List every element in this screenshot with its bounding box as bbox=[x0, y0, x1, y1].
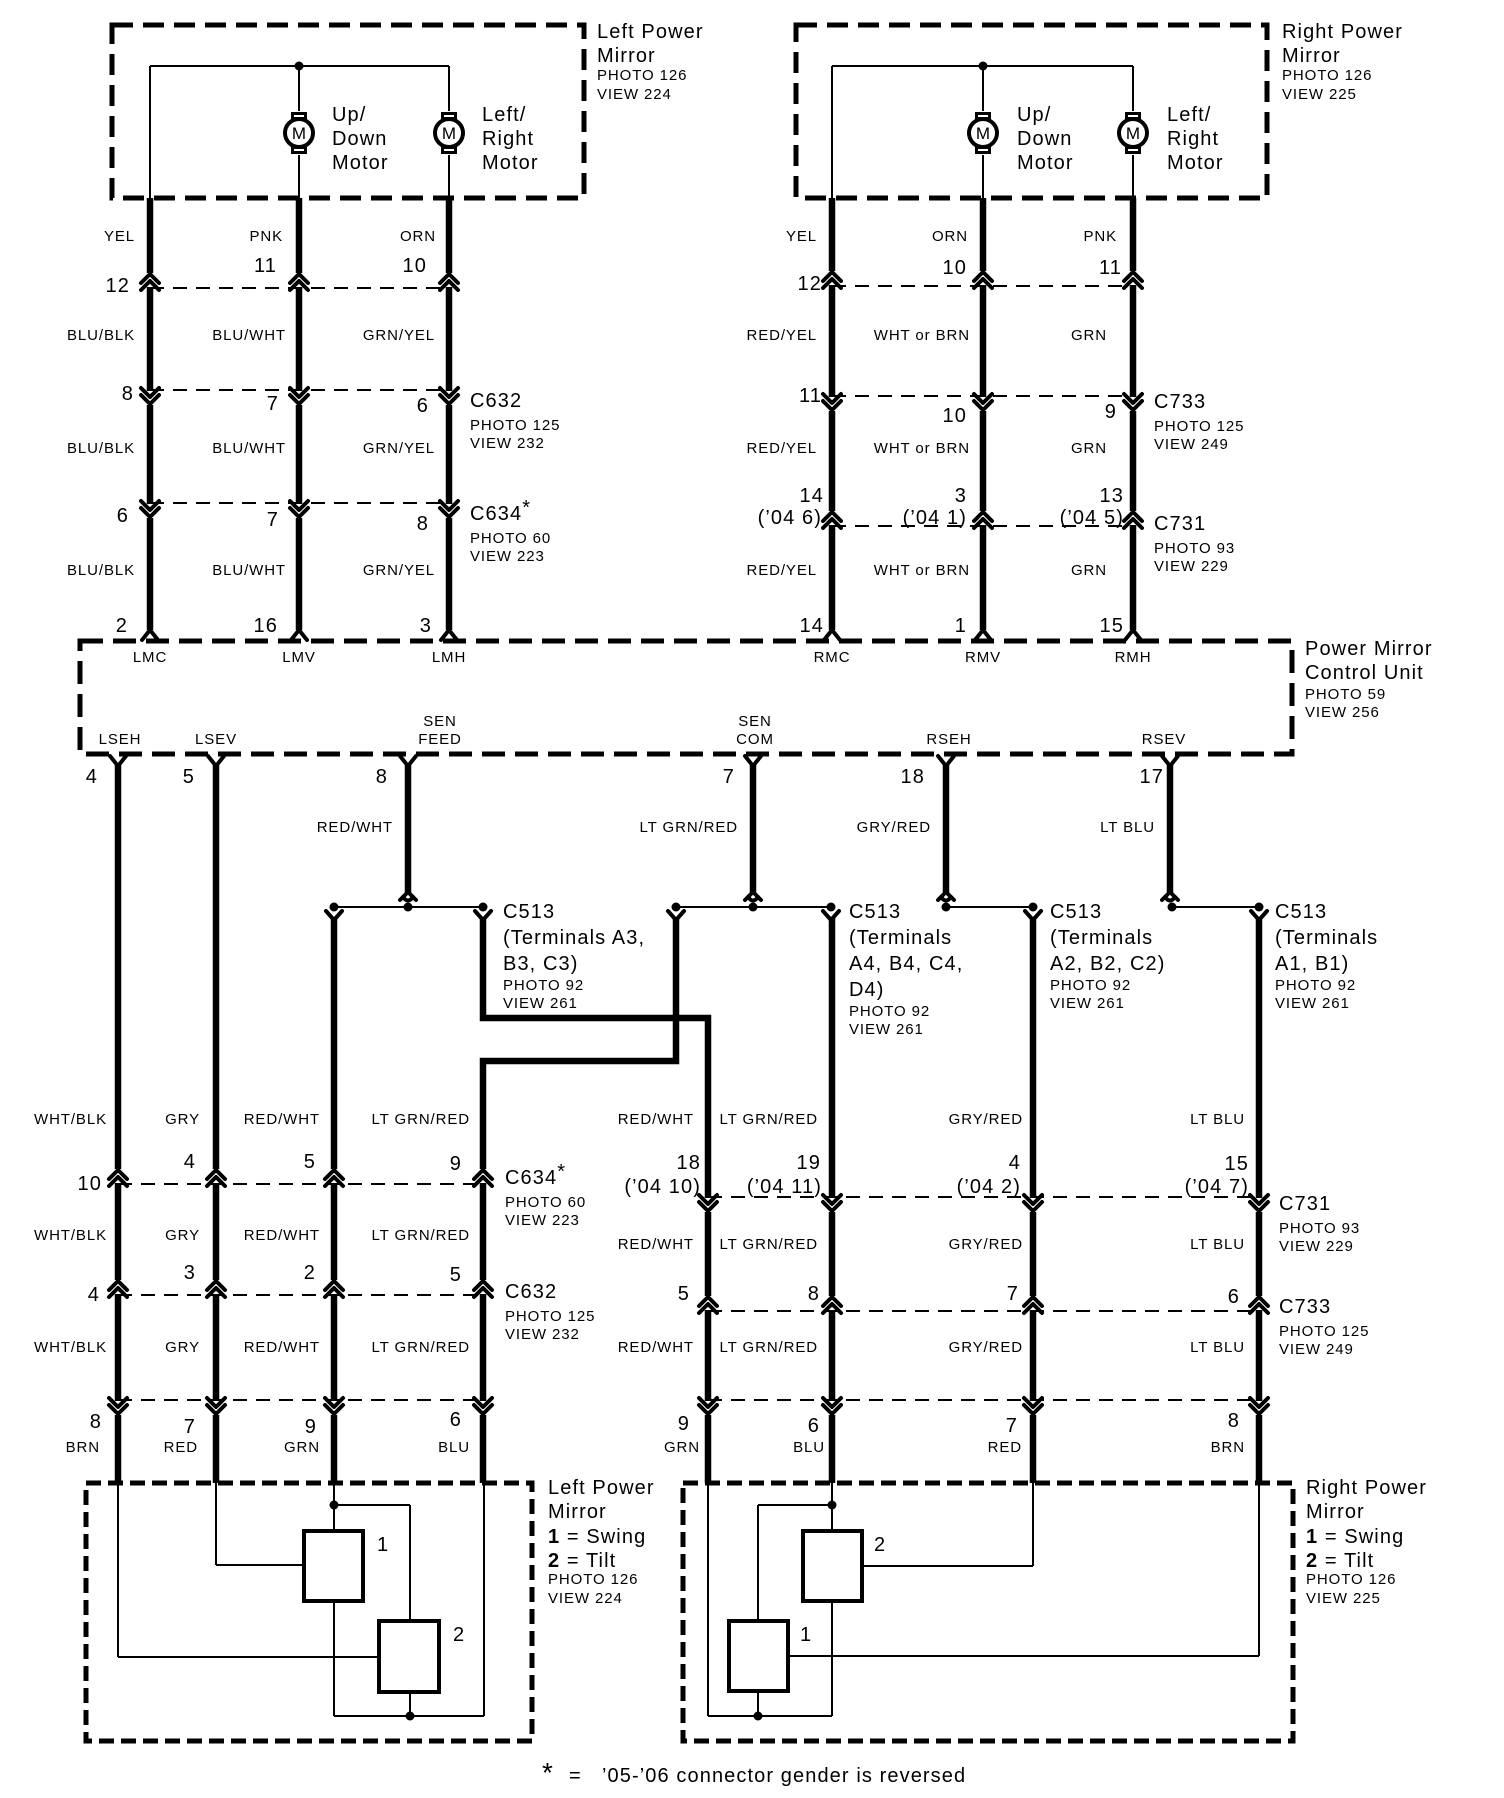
svg-text:=: = bbox=[569, 1765, 582, 1787]
connector C731 line (right) bbox=[832, 525, 1133, 527]
svg-text:(’04 7): (’04 7) bbox=[1185, 1176, 1249, 1198]
wire feed to swing pot bbox=[333, 1483, 335, 1531]
svg-text:Motor: Motor bbox=[1017, 152, 1074, 174]
svg-text:PHOTO 60: PHOTO 60 bbox=[470, 530, 551, 547]
svg-text:4: 4 bbox=[1009, 1152, 1021, 1174]
svg-text:9: 9 bbox=[450, 1153, 462, 1175]
svg-text:VIEW 223: VIEW 223 bbox=[470, 548, 545, 565]
svg-text:RSEV: RSEV bbox=[1142, 731, 1186, 748]
svg-text:GRY: GRY bbox=[165, 1227, 200, 1244]
svg-text:4: 4 bbox=[86, 766, 98, 788]
Left Power Mirror box (bottom) bbox=[86, 1483, 532, 1741]
wire PNK/BLU-WHT segment bbox=[296, 287, 303, 391]
svg-text:RED/WHT: RED/WHT bbox=[244, 1227, 320, 1244]
wire common bus bbox=[334, 1715, 484, 1717]
connector pin chevron bbox=[1250, 1398, 1268, 1414]
wire bus inside left mirror box bbox=[150, 65, 449, 67]
wire ORN/GRN-YEL segment mirror to C-row bbox=[446, 198, 453, 273]
node B3 bbox=[404, 903, 413, 912]
svg-text:C733: C733 bbox=[1154, 391, 1206, 413]
svg-text:(Terminals: (Terminals bbox=[1275, 927, 1378, 949]
svg-text:10: 10 bbox=[943, 405, 967, 427]
svg-text:VIEW 224: VIEW 224 bbox=[548, 1590, 623, 1607]
junction node feed bbox=[330, 1501, 339, 1510]
connector line at left mirror bbox=[118, 1399, 483, 1401]
svg-text:11: 11 bbox=[799, 385, 822, 407]
C513 terminal to right mirror RSEV bbox=[1251, 911, 1267, 920]
wire RED/WHT SEN FEED bbox=[405, 764, 412, 894]
wire left drop inside box bbox=[149, 66, 151, 198]
svg-text:GRY: GRY bbox=[165, 1339, 200, 1356]
connector pin chevron bbox=[974, 272, 992, 288]
wire segment bbox=[1256, 1212, 1263, 1296]
svg-text:M: M bbox=[976, 124, 990, 143]
svg-text:1 = Swing: 1 = Swing bbox=[548, 1526, 646, 1548]
connector pin chevron bbox=[699, 1398, 717, 1414]
svg-text:Mirror: Mirror bbox=[1306, 1501, 1365, 1523]
svg-text:M: M bbox=[1126, 124, 1140, 143]
svg-text:8: 8 bbox=[122, 383, 134, 405]
wire feed return bbox=[707, 1483, 709, 1716]
svg-text:7: 7 bbox=[184, 1416, 196, 1438]
svg-text:Right: Right bbox=[482, 128, 534, 150]
connector C632 pin chevron bbox=[290, 388, 308, 404]
wire PNK/BLU-WHT segment bbox=[296, 405, 303, 504]
svg-text:7: 7 bbox=[267, 509, 279, 531]
svg-text:LT GRN/RED: LT GRN/RED bbox=[720, 1111, 818, 1128]
wire YEL/BLU-BLK segment mirror to C-row bbox=[147, 198, 154, 273]
svg-text:GRY/RED: GRY/RED bbox=[949, 1339, 1023, 1356]
svg-text:VIEW 232: VIEW 232 bbox=[470, 435, 545, 452]
svg-text:PHOTO 125: PHOTO 125 bbox=[1154, 418, 1244, 435]
wire YEL/RED-YEL segment mirror to C-row bbox=[829, 198, 836, 271]
connector C733 line (lower) bbox=[708, 1310, 1259, 1312]
svg-text:12: 12 bbox=[798, 273, 822, 295]
svg-text:WHT/BLK: WHT/BLK bbox=[34, 1111, 107, 1128]
C513 terminal to left mirror feed bbox=[326, 911, 342, 920]
wire RED/WHT crossover to right mirror bbox=[483, 918, 708, 1198]
wire segment to left mirror bbox=[331, 1415, 338, 1483]
svg-text:6: 6 bbox=[808, 1415, 820, 1437]
terminal fork below control unit bbox=[745, 756, 761, 766]
svg-text:BLU/WHT: BLU/WHT bbox=[212, 562, 286, 579]
svg-text:2: 2 bbox=[304, 1262, 316, 1284]
wire YEL/RED-YEL segment to control unit bbox=[829, 525, 836, 630]
svg-text:VIEW 261: VIEW 261 bbox=[1050, 995, 1125, 1012]
terminal fork below control unit bbox=[938, 756, 954, 766]
svg-text:15: 15 bbox=[1100, 615, 1124, 637]
svg-text:VIEW 225: VIEW 225 bbox=[1306, 1590, 1381, 1607]
svg-text:Up/: Up/ bbox=[1017, 104, 1051, 126]
svg-text:19: 19 bbox=[797, 1152, 821, 1174]
svg-text:(Terminals: (Terminals bbox=[1050, 927, 1153, 949]
wire ORN/GRN-YEL segment bbox=[446, 287, 453, 391]
wire segment bbox=[480, 1294, 487, 1401]
C513 bus (terminals A4,B4,C4,D4) bbox=[676, 906, 831, 908]
svg-text:RED/YEL: RED/YEL bbox=[747, 327, 818, 344]
svg-text:A4, B4, C4,: A4, B4, C4, bbox=[849, 953, 963, 975]
svg-text:SEN: SEN bbox=[423, 713, 457, 730]
wire common branch bbox=[758, 1504, 832, 1506]
C513 terminal (SEN COM side) bbox=[745, 892, 761, 901]
wire WHT/BLK LSEH bbox=[115, 764, 122, 1169]
terminal fork below control unit bbox=[400, 756, 416, 766]
connector C632 pin chevron bbox=[207, 1281, 225, 1297]
wire ORN/GRN-YEL segment bbox=[446, 405, 453, 504]
Power Mirror Control Unit box bbox=[80, 641, 1292, 754]
connector pin chevron bbox=[325, 1398, 343, 1414]
svg-text:C731: C731 bbox=[1154, 513, 1206, 535]
terminal fork below control unit bbox=[110, 756, 126, 766]
wire below left/right motor bbox=[448, 155, 450, 198]
connector C731 pin chevron bbox=[699, 1195, 717, 1211]
connector pin chevron bbox=[109, 1398, 127, 1414]
connector C634 pin chevron bbox=[141, 501, 159, 517]
wire segment bbox=[213, 1183, 220, 1280]
svg-text:VIEW 261: VIEW 261 bbox=[849, 1021, 924, 1038]
svg-text:1: 1 bbox=[955, 615, 967, 637]
svg-text:VIEW 225: VIEW 225 bbox=[1282, 86, 1357, 103]
Right Power Mirror box (bottom) bbox=[683, 1483, 1293, 1741]
svg-text:A2, B2, C2): A2, B2, C2) bbox=[1050, 953, 1165, 975]
svg-text:*: * bbox=[542, 1757, 553, 1788]
svg-text:3: 3 bbox=[955, 485, 967, 507]
svg-text:8: 8 bbox=[808, 1283, 820, 1305]
connector C731 pin chevron bbox=[974, 512, 992, 528]
svg-text:PHOTO 126: PHOTO 126 bbox=[1306, 1571, 1396, 1588]
svg-text:BLU/BLK: BLU/BLK bbox=[67, 440, 135, 457]
wire LT BLU to right mirror bbox=[1256, 918, 1263, 1198]
svg-text:10: 10 bbox=[943, 257, 967, 279]
svg-text:WHT or BRN: WHT or BRN bbox=[874, 440, 970, 457]
svg-text:Left Power: Left Power bbox=[597, 21, 704, 43]
C513 terminal to left mirror common bbox=[668, 911, 684, 920]
svg-text:BLU/WHT: BLU/WHT bbox=[212, 440, 286, 457]
svg-text:(’04 11): (’04 11) bbox=[747, 1176, 822, 1198]
svg-text:3: 3 bbox=[420, 615, 432, 637]
svg-text:PHOTO 125: PHOTO 125 bbox=[1279, 1323, 1369, 1340]
svg-text:LMV: LMV bbox=[282, 649, 316, 666]
C513 terminal to right mirror common bbox=[823, 911, 839, 920]
svg-text:5: 5 bbox=[304, 1151, 316, 1173]
svg-text:LT BLU: LT BLU bbox=[1100, 819, 1155, 836]
svg-text:YEL: YEL bbox=[104, 228, 135, 245]
svg-text:PHOTO 59: PHOTO 59 bbox=[1305, 686, 1386, 703]
wire segment bbox=[705, 1310, 712, 1401]
svg-text:LT GRN/RED: LT GRN/RED bbox=[372, 1227, 470, 1244]
svg-text:LSEV: LSEV bbox=[195, 731, 237, 748]
terminal fork at control unit bbox=[142, 630, 158, 640]
connector pin chevron bbox=[474, 1398, 492, 1414]
svg-text:18: 18 bbox=[901, 766, 925, 788]
svg-text:C513: C513 bbox=[1275, 901, 1327, 923]
connector C731 line (lower) bbox=[708, 1196, 1259, 1198]
svg-text:PHOTO 92: PHOTO 92 bbox=[1050, 977, 1131, 994]
svg-text:Left Power: Left Power bbox=[548, 1477, 655, 1499]
wire PNK/GRN segment bbox=[1130, 411, 1137, 511]
svg-text:(’04 10): (’04 10) bbox=[624, 1176, 701, 1198]
wire GRY/RED to right mirror bbox=[1030, 918, 1037, 1198]
svg-text:C513: C513 bbox=[503, 901, 555, 923]
svg-text:PHOTO 60: PHOTO 60 bbox=[505, 1194, 586, 1211]
wire swing wiper to RSEV bbox=[788, 1655, 1259, 1657]
C513 terminal (SEN FEED side) bbox=[400, 892, 416, 901]
connector pin chevron bbox=[1124, 272, 1142, 288]
svg-text:GRY/RED: GRY/RED bbox=[857, 819, 931, 836]
potentiometer 2 tilt (right mirror) bbox=[803, 1531, 862, 1601]
wire pot1 bottom to feed bus bbox=[757, 1691, 759, 1716]
svg-text:RED/YEL: RED/YEL bbox=[747, 440, 818, 457]
svg-text:(’04 5): (’04 5) bbox=[1060, 507, 1124, 529]
wire to left/right motor bbox=[1132, 66, 1134, 111]
svg-text:VIEW 261: VIEW 261 bbox=[503, 995, 578, 1012]
wire pot1 bottom to common bbox=[333, 1601, 335, 1716]
svg-text:M: M bbox=[292, 124, 306, 143]
junction node common bbox=[406, 1712, 415, 1721]
wire segment bbox=[480, 1183, 487, 1280]
svg-text:WHT/BLK: WHT/BLK bbox=[34, 1339, 107, 1356]
svg-text:’05-’06 connector gender is re: ’05-’06 connector gender is reversed bbox=[602, 1765, 966, 1787]
wire common to swing pot bbox=[757, 1505, 759, 1621]
svg-text:A1, B1): A1, B1) bbox=[1275, 953, 1349, 975]
connector C634 pin chevron bbox=[207, 1170, 225, 1186]
svg-text:16: 16 bbox=[254, 615, 278, 637]
svg-text:VIEW 229: VIEW 229 bbox=[1154, 558, 1229, 575]
wire segment to right mirror bbox=[705, 1415, 712, 1483]
svg-text:C513: C513 bbox=[849, 901, 901, 923]
terminal fork at control unit bbox=[824, 630, 840, 640]
wire YEL/BLU-BLK segment to control unit bbox=[147, 518, 154, 630]
svg-text:PHOTO 126: PHOTO 126 bbox=[1282, 67, 1372, 84]
svg-text:M: M bbox=[442, 124, 456, 143]
connector C634 line (lower) bbox=[118, 1183, 483, 1185]
svg-text:Motor: Motor bbox=[1167, 152, 1224, 174]
motor M up/down (left mirror) bbox=[285, 112, 313, 154]
wire to up/down motor bbox=[298, 66, 300, 111]
terminal fork at control unit bbox=[1125, 630, 1141, 640]
svg-text:GRY/RED: GRY/RED bbox=[949, 1111, 1023, 1128]
svg-text:(’04 6): (’04 6) bbox=[758, 507, 822, 529]
wire segment bbox=[331, 1183, 338, 1280]
wire ORN/WHTorBRN segment bbox=[980, 285, 987, 397]
wire PNK/GRN segment bbox=[1130, 285, 1137, 397]
terminal fork below control unit bbox=[208, 756, 224, 766]
connector C733 pin chevron bbox=[974, 394, 992, 410]
node B2 bbox=[1029, 903, 1038, 912]
svg-text:GRN: GRN bbox=[284, 1439, 320, 1456]
svg-text:WHT or BRN: WHT or BRN bbox=[874, 562, 970, 579]
svg-text:PHOTO 92: PHOTO 92 bbox=[1275, 977, 1356, 994]
wire segment bbox=[1030, 1212, 1037, 1296]
svg-text:LSEH: LSEH bbox=[99, 731, 142, 748]
svg-text:7: 7 bbox=[723, 766, 735, 788]
svg-text:B3, C3): B3, C3) bbox=[503, 953, 579, 975]
svg-text:RED: RED bbox=[164, 1439, 198, 1456]
svg-text:PHOTO 93: PHOTO 93 bbox=[1154, 540, 1235, 557]
svg-text:C632: C632 bbox=[470, 390, 522, 412]
wire feed branch bbox=[334, 1504, 410, 1506]
connector pin chevron bbox=[290, 274, 308, 290]
wire segment bbox=[829, 1310, 836, 1401]
svg-text:4: 4 bbox=[184, 1151, 196, 1173]
C513 bus (terminals A2,B2,C2) bbox=[946, 906, 1033, 908]
wire to up/down motor bbox=[982, 66, 984, 111]
potentiometer 1 swing (right mirror) bbox=[729, 1621, 788, 1691]
node C4 bbox=[827, 903, 836, 912]
svg-text:14: 14 bbox=[800, 615, 824, 637]
connector line at right mirror bbox=[708, 1399, 1259, 1401]
svg-text:BLU: BLU bbox=[438, 1439, 470, 1456]
svg-text:YEL: YEL bbox=[786, 228, 817, 245]
node A1 bbox=[1168, 903, 1177, 912]
svg-text:RED: RED bbox=[988, 1439, 1022, 1456]
connector C632 pin chevron bbox=[109, 1281, 127, 1297]
wire LT GRN/RED crossover to left mirror bbox=[483, 918, 676, 1169]
svg-text:2: 2 bbox=[874, 1534, 886, 1556]
wire below up/down motor bbox=[982, 155, 984, 198]
svg-text:PHOTO 125: PHOTO 125 bbox=[505, 1308, 595, 1325]
connector C733 pin chevron bbox=[1124, 394, 1142, 410]
wire YEL/BLU-BLK segment bbox=[147, 405, 154, 504]
connector C733 pin chevron bbox=[823, 1297, 841, 1313]
svg-text:Control Unit: Control Unit bbox=[1305, 662, 1424, 684]
svg-text:GRN: GRN bbox=[1071, 440, 1107, 457]
svg-text:5: 5 bbox=[450, 1264, 462, 1286]
svg-text:VIEW 249: VIEW 249 bbox=[1154, 436, 1229, 453]
wire PNK/BLU-WHT segment to control unit bbox=[296, 518, 303, 630]
connector C632 pin chevron bbox=[440, 388, 458, 404]
svg-text:Mirror: Mirror bbox=[1282, 45, 1341, 67]
junction node feed bbox=[754, 1712, 763, 1721]
connector C632 line (lower) bbox=[118, 1294, 483, 1296]
junction node bbox=[979, 62, 988, 71]
svg-text:Left/: Left/ bbox=[1167, 104, 1211, 126]
svg-text:VIEW 229: VIEW 229 bbox=[1279, 1238, 1354, 1255]
svg-text:RED/WHT: RED/WHT bbox=[618, 1339, 694, 1356]
svg-text:RED/YEL: RED/YEL bbox=[747, 562, 818, 579]
connector C733 pin chevron bbox=[823, 394, 841, 410]
svg-text:15: 15 bbox=[1225, 1153, 1249, 1175]
svg-text:VIEW 261: VIEW 261 bbox=[1275, 995, 1350, 1012]
svg-text:WHT/BLK: WHT/BLK bbox=[34, 1227, 107, 1244]
wire feed bus bbox=[708, 1715, 832, 1717]
connector pin chevron bbox=[823, 1398, 841, 1414]
motor M up/down (right mirror) bbox=[969, 112, 997, 154]
svg-text:RED/WHT: RED/WHT bbox=[244, 1339, 320, 1356]
terminal fork below control unit bbox=[1162, 756, 1178, 766]
svg-text:RED/WHT: RED/WHT bbox=[244, 1111, 320, 1128]
C513 bus (terminals A1,B1) bbox=[1172, 906, 1259, 908]
svg-text:11: 11 bbox=[1099, 257, 1122, 279]
wire ORN/WHTorBRN segment to control unit bbox=[980, 525, 987, 630]
wire to left/right motor bbox=[448, 66, 450, 111]
svg-text:BLU: BLU bbox=[793, 1439, 825, 1456]
node A3 bbox=[330, 903, 339, 912]
svg-text:RSEH: RSEH bbox=[926, 731, 971, 748]
svg-text:8: 8 bbox=[1228, 1410, 1240, 1432]
connector pin chevron bbox=[1024, 1398, 1042, 1414]
svg-text:PHOTO 92: PHOTO 92 bbox=[503, 977, 584, 994]
Left Power Mirror box (top) bbox=[112, 25, 584, 198]
svg-text:GRY: GRY bbox=[165, 1111, 200, 1128]
svg-text:6: 6 bbox=[1228, 1286, 1240, 1308]
Right Power Mirror box (top) bbox=[796, 25, 1267, 198]
junction node bbox=[295, 62, 304, 71]
svg-text:Motor: Motor bbox=[482, 152, 539, 174]
svg-text:C733: C733 bbox=[1279, 1296, 1331, 1318]
wire to swing pot bbox=[215, 1483, 217, 1565]
svg-text:6: 6 bbox=[417, 395, 429, 417]
connector C634 pin chevron bbox=[290, 501, 308, 517]
svg-text:BLU/BLK: BLU/BLK bbox=[67, 327, 135, 344]
svg-text:ORN: ORN bbox=[400, 228, 436, 245]
wire LT BLU RSEV bbox=[1167, 764, 1174, 894]
svg-text:Right Power: Right Power bbox=[1306, 1477, 1427, 1499]
svg-text:8: 8 bbox=[90, 1411, 102, 1433]
connector C632 pin chevron bbox=[474, 1281, 492, 1297]
connector C632 pin chevron bbox=[141, 388, 159, 404]
wire to tilt pot wiper bbox=[118, 1656, 379, 1658]
svg-text:LT GRN/RED: LT GRN/RED bbox=[640, 819, 738, 836]
svg-text:LT GRN/RED: LT GRN/RED bbox=[372, 1111, 470, 1128]
wire LT GRN/RED SEN COM bbox=[750, 764, 757, 894]
wire segment bbox=[115, 1294, 122, 1401]
svg-text:6: 6 bbox=[117, 505, 129, 527]
svg-text:18: 18 bbox=[677, 1152, 701, 1174]
svg-text:PHOTO 93: PHOTO 93 bbox=[1279, 1220, 1360, 1237]
svg-text:17: 17 bbox=[1140, 766, 1164, 788]
connector pin chevron bbox=[823, 272, 841, 288]
wire segment to right mirror bbox=[1030, 1415, 1037, 1483]
wire ORN/GRN-YEL segment to control unit bbox=[446, 518, 453, 630]
connector C632 line (left) bbox=[150, 389, 449, 391]
C513 terminal (RSEV side) bbox=[1162, 892, 1178, 901]
svg-text:Down: Down bbox=[332, 128, 388, 150]
connector C731 pin chevron bbox=[823, 512, 841, 528]
svg-text:WHT or BRN: WHT or BRN bbox=[874, 327, 970, 344]
svg-text:5: 5 bbox=[183, 766, 195, 788]
terminal fork at control unit bbox=[441, 630, 457, 640]
svg-text:ORN: ORN bbox=[932, 228, 968, 245]
svg-text:2 = Tilt: 2 = Tilt bbox=[548, 1550, 616, 1572]
wire ORN/WHTorBRN segment mirror to C-row bbox=[980, 198, 987, 271]
connector C733 pin chevron bbox=[1024, 1297, 1042, 1313]
connector C634 pin chevron bbox=[325, 1170, 343, 1186]
C513 terminal to right mirror feed bbox=[475, 911, 491, 920]
wire segment to left mirror bbox=[480, 1415, 487, 1483]
svg-text:BRN: BRN bbox=[66, 1439, 100, 1456]
node D4 bbox=[672, 903, 681, 912]
wire pot2 bottom to feed bus bbox=[831, 1601, 833, 1716]
svg-text:GRY/RED: GRY/RED bbox=[949, 1236, 1023, 1253]
svg-text:VIEW 249: VIEW 249 bbox=[1279, 1341, 1354, 1358]
svg-text:11: 11 bbox=[254, 255, 277, 277]
svg-text:RMC: RMC bbox=[814, 649, 851, 666]
svg-text:Motor: Motor bbox=[332, 152, 389, 174]
motor M left/right (left mirror) bbox=[435, 112, 463, 154]
potentiometer 2 tilt (left mirror) bbox=[379, 1621, 439, 1692]
svg-text:RMH: RMH bbox=[1115, 649, 1152, 666]
svg-text:LT GRN/RED: LT GRN/RED bbox=[720, 1339, 818, 1356]
connector C632 pin chevron bbox=[325, 1281, 343, 1297]
wire segment bbox=[1256, 1310, 1263, 1401]
wire bus inside right mirror box bbox=[832, 65, 1133, 67]
svg-text:PHOTO 126: PHOTO 126 bbox=[597, 67, 687, 84]
svg-text:C731: C731 bbox=[1279, 1193, 1331, 1215]
svg-text:(’04 1): (’04 1) bbox=[903, 507, 967, 529]
svg-text:12: 12 bbox=[106, 275, 130, 297]
wire segment to left mirror bbox=[115, 1415, 122, 1483]
